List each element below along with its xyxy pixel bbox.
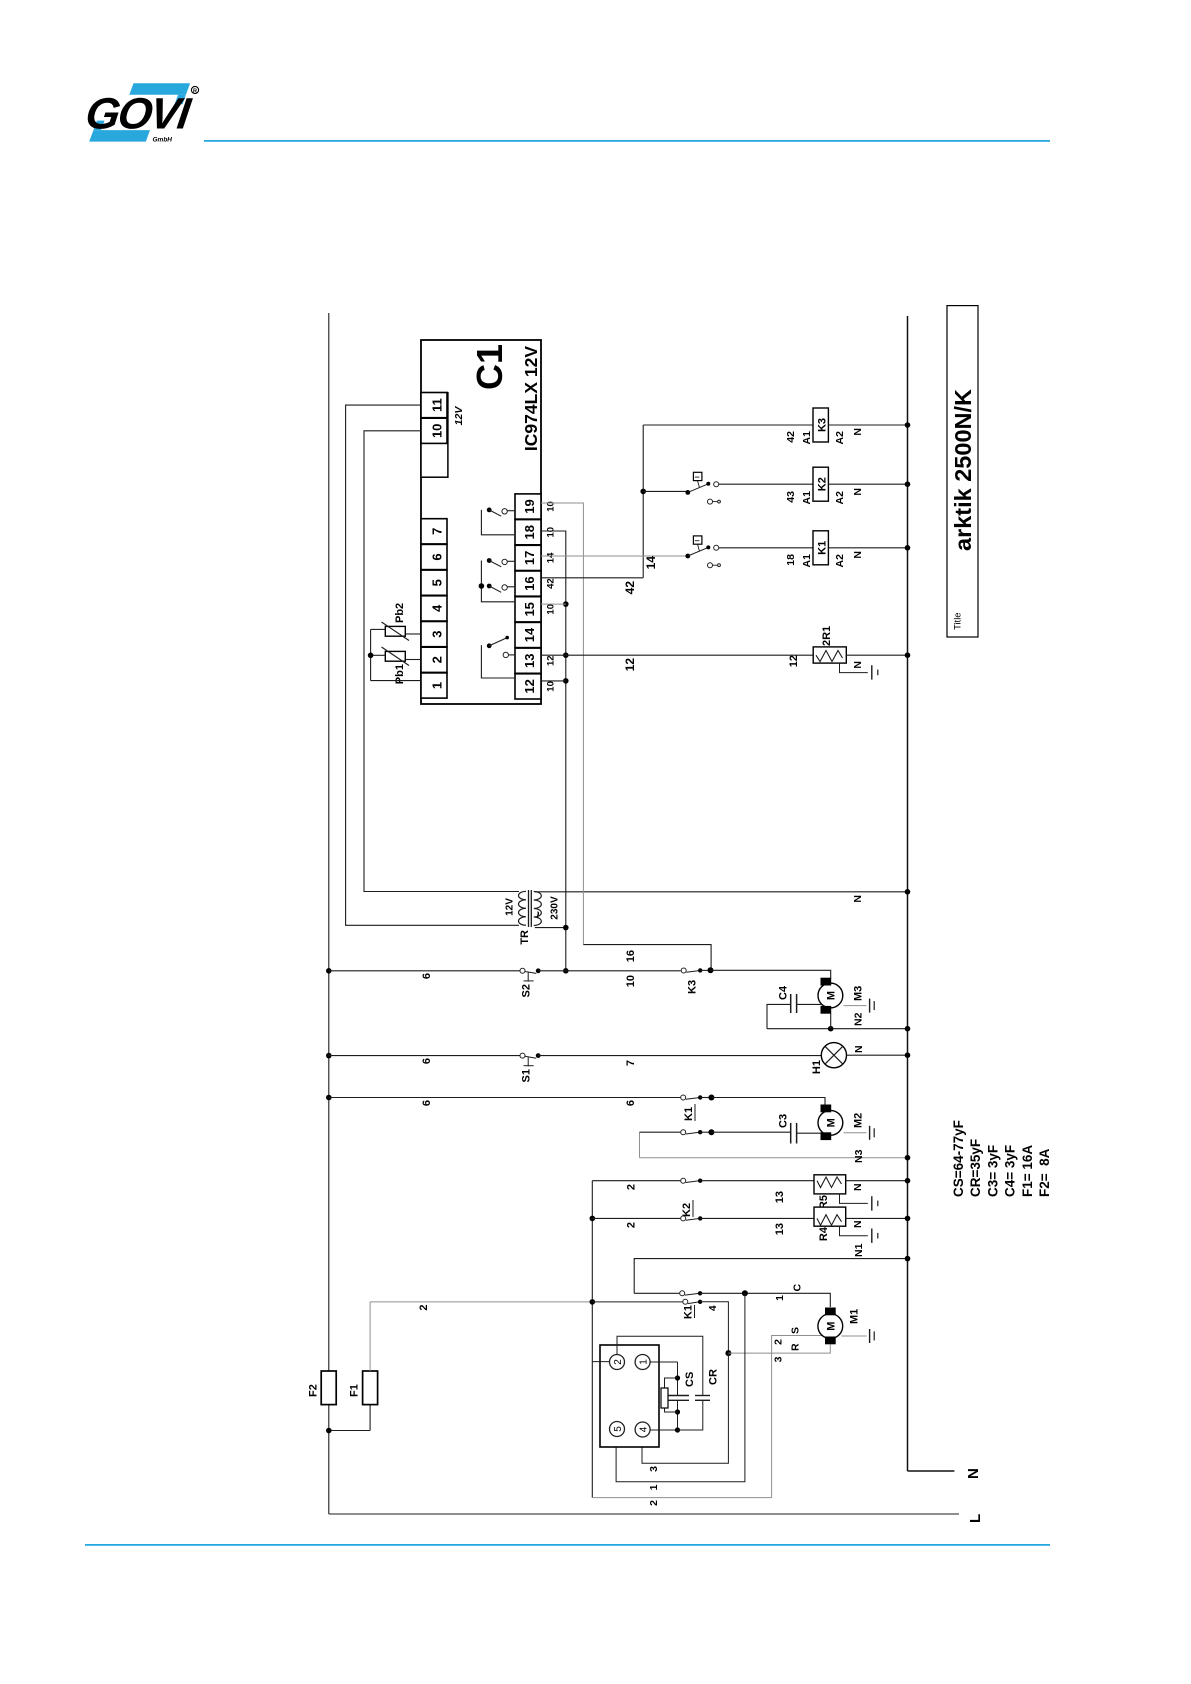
svg-text:S2: S2 xyxy=(521,984,533,997)
label N xyxy=(965,1468,982,1479)
pin 7 of C1 xyxy=(421,519,447,544)
svg-text:2: 2 xyxy=(773,1339,785,1345)
svg-text:M: M xyxy=(826,1322,838,1331)
svg-text:R: R xyxy=(790,1343,802,1351)
relay terminal 2 xyxy=(610,1355,625,1370)
wire K1 to fan M2 terminal xyxy=(711,1098,825,1106)
svg-text:A2: A2 xyxy=(834,431,846,445)
label L xyxy=(967,1514,984,1523)
svg-text:GmbH: GmbH xyxy=(153,136,173,143)
pin 10 of C1 xyxy=(421,418,447,443)
wire 14 from pin 17 xyxy=(541,556,686,570)
svg-text:6: 6 xyxy=(421,1058,433,1064)
svg-text:15: 15 xyxy=(522,602,537,616)
svg-text:M: M xyxy=(826,991,838,1000)
relay contact K1 lower xyxy=(640,1129,715,1135)
resistor R4 xyxy=(814,1207,846,1241)
wire 42 to relay coil K3 xyxy=(643,425,813,444)
svg-text:TR: TR xyxy=(519,930,531,945)
ground of M1 xyxy=(842,1329,875,1343)
wire changeover lower to R junction xyxy=(700,1302,731,1356)
wire pin 10 to TR 12V winding xyxy=(364,431,519,892)
transformer TR 230V winding xyxy=(531,892,546,926)
svg-text:10: 10 xyxy=(546,681,557,692)
svg-text:GOVI: GOVI xyxy=(83,90,196,139)
svg-text:10: 10 xyxy=(546,527,557,538)
relay terminal 4 xyxy=(635,1422,650,1437)
svg-text:H1: H1 xyxy=(811,1060,823,1074)
transformer TR core xyxy=(529,890,532,927)
wire probe common to pin 1 xyxy=(368,629,421,680)
resistor R5 xyxy=(814,1175,846,1209)
wire R4 to N rail xyxy=(846,1216,911,1228)
svg-text:N: N xyxy=(852,1220,864,1228)
svg-text:C4: C4 xyxy=(778,985,790,1000)
wire M3 to N rail xyxy=(767,1012,910,1031)
wire 13 to heater R4 xyxy=(700,1218,814,1235)
wire 7 S1 to lamp xyxy=(538,1056,821,1067)
svg-text:M: M xyxy=(826,1118,838,1127)
svg-text:F1= 16A: F1= 16A xyxy=(1020,1145,1035,1197)
svg-text:6: 6 xyxy=(625,1100,637,1106)
pressure switch of K2 xyxy=(685,472,720,504)
relay terminal 5 xyxy=(610,1422,625,1437)
relay coil K1 xyxy=(719,531,864,568)
ground of R1 xyxy=(840,663,878,680)
svg-text:16: 16 xyxy=(625,950,637,962)
svg-text:K3: K3 xyxy=(817,418,829,432)
wire 2 to M1 run terminal xyxy=(592,1327,824,1506)
svg-text:R4: R4 xyxy=(818,1226,830,1241)
svg-text:M2: M2 xyxy=(853,1113,865,1128)
svg-text:19: 19 xyxy=(522,499,537,513)
ground of R5 xyxy=(840,1194,878,1211)
component values note xyxy=(951,1120,1052,1197)
svg-text:N1: N1 xyxy=(853,1243,865,1257)
svg-text:CS=64-77yF: CS=64-77yF xyxy=(951,1120,966,1197)
svg-text:10: 10 xyxy=(546,604,557,615)
wire 6 branch S1 xyxy=(326,1053,520,1064)
svg-text:R: R xyxy=(193,88,197,94)
label TR xyxy=(519,930,531,945)
wire 42 branch to K2 xyxy=(643,490,686,492)
svg-text:K3: K3 xyxy=(687,980,699,994)
wire N1 branch xyxy=(634,1243,910,1293)
svg-text:7: 7 xyxy=(625,1060,637,1066)
wire terminal 2 stub to bus xyxy=(592,1361,609,1363)
svg-text:17: 17 xyxy=(522,551,537,565)
svg-text:6: 6 xyxy=(421,973,433,979)
svg-text:L: L xyxy=(967,1514,984,1523)
label 12V supply pins xyxy=(453,406,465,426)
label 230V winding xyxy=(550,896,561,920)
svg-text:Pb1: Pb1 xyxy=(394,664,406,684)
svg-text:1: 1 xyxy=(774,1295,786,1301)
transformer TR 12V winding xyxy=(519,891,526,925)
label IC974LX 12V xyxy=(521,346,541,451)
svg-text:C1: C1 xyxy=(469,344,510,390)
svg-text:F2: F2 xyxy=(308,1384,320,1397)
wire L rail left border segment xyxy=(329,1513,959,1515)
svg-text:2: 2 xyxy=(648,1500,660,1506)
wire F branch from L rail to F1 xyxy=(326,1405,370,1434)
switch S1 xyxy=(520,1053,541,1082)
wire 16 bus from pin 19 xyxy=(541,503,711,970)
svg-text:1: 1 xyxy=(639,1359,650,1365)
svg-text:5: 5 xyxy=(613,1426,624,1432)
fuse F1 xyxy=(349,1371,378,1405)
wire K3 coil to N rail xyxy=(828,422,910,428)
ground of M3 xyxy=(844,999,875,1013)
pin 17 of C1 xyxy=(515,545,541,570)
capacitor CR xyxy=(617,1336,720,1430)
pins 10 11 enclosure xyxy=(421,393,448,478)
wire 2 bus xyxy=(590,1181,596,1498)
relay contact K3 xyxy=(681,967,713,994)
svg-text:16: 16 xyxy=(522,576,537,590)
svg-text:18: 18 xyxy=(785,554,797,566)
svg-text:A2: A2 xyxy=(834,554,846,568)
wire C to compressor M1 xyxy=(700,1284,830,1308)
pin 18 of C1 xyxy=(515,520,541,545)
pin 2 of C1 xyxy=(421,647,447,672)
svg-text:M1: M1 xyxy=(849,1309,861,1324)
svg-text:K2: K2 xyxy=(681,1203,693,1217)
svg-text:N: N xyxy=(852,895,864,903)
label 12V winding xyxy=(505,898,516,916)
wire 6 branch K1 contact xyxy=(326,1095,680,1106)
thermistor probe Pb2 xyxy=(371,603,421,641)
wire R to M1 start terminal xyxy=(728,1343,830,1362)
svg-text:1: 1 xyxy=(648,1484,660,1490)
svg-text:5: 5 xyxy=(430,579,445,586)
svg-text:N: N xyxy=(852,551,864,559)
ground of M2 xyxy=(844,1126,875,1140)
svg-text:42: 42 xyxy=(623,581,637,595)
svg-text:4: 4 xyxy=(708,1305,719,1311)
internal contact C1 pins 18-19 xyxy=(481,508,515,535)
wire L supply rail (top border, portrait left line) xyxy=(328,313,330,1514)
pressure switch of K1 xyxy=(685,536,720,568)
internal contact C1 over pin 17 xyxy=(487,558,515,567)
wire H1 to N rail xyxy=(847,1045,911,1058)
GmbH text xyxy=(153,136,173,143)
pin 15 of C1 xyxy=(515,597,541,622)
pin 16 of C1 xyxy=(515,571,541,596)
svg-text:C: C xyxy=(792,1284,804,1292)
internal contact C1 pins 12-13-14 closed blade xyxy=(481,636,515,678)
svg-text:arktik 2500N/K: arktik 2500N/K xyxy=(950,389,976,551)
wire 42 from pin 16 xyxy=(541,578,643,595)
relay contact K2 lower xyxy=(592,1216,702,1228)
svg-text:3: 3 xyxy=(430,630,445,637)
svg-text:A1: A1 xyxy=(801,554,813,568)
svg-text:Pb2: Pb2 xyxy=(394,603,406,623)
switch S2 xyxy=(520,968,541,997)
svg-text:N: N xyxy=(852,1183,864,1191)
wire K2 coil to N rail xyxy=(828,481,910,487)
relay contact K1 upper xyxy=(681,1095,715,1122)
svg-text:2: 2 xyxy=(418,1305,430,1311)
svg-text:N: N xyxy=(852,428,864,436)
pin 14 of C1 xyxy=(515,622,541,647)
svg-text:3: 3 xyxy=(773,1356,785,1362)
svg-text:N: N xyxy=(853,1045,865,1053)
svg-text:A1: A1 xyxy=(801,491,813,505)
pin 1 of C1 xyxy=(421,673,447,698)
fuse F2 xyxy=(308,1371,337,1405)
GOVI logo wordmark xyxy=(83,90,196,139)
registered trademark symbol xyxy=(191,86,198,94)
wire pin 15 stub xyxy=(541,603,566,605)
svg-text:A1: A1 xyxy=(801,431,813,445)
relay coil K3 xyxy=(813,408,864,444)
svg-text:1: 1 xyxy=(430,682,445,689)
svg-text:C3: C3 xyxy=(778,1114,790,1128)
svg-text:N2: N2 xyxy=(853,1012,865,1026)
svg-text:13: 13 xyxy=(774,1223,786,1235)
wire 12 from pin 13 to R1 xyxy=(541,655,813,671)
svg-text:6: 6 xyxy=(430,553,445,560)
wire 42 bus to K3 and K2 xyxy=(640,425,646,578)
pin 13 of C1 xyxy=(515,648,541,673)
svg-text:CR: CR xyxy=(708,1369,720,1385)
wire K1 coil to N rail xyxy=(828,545,910,551)
svg-text:2: 2 xyxy=(626,1184,638,1190)
svg-text:14: 14 xyxy=(522,627,537,642)
header rule xyxy=(204,140,1050,142)
svg-text:Title: Title xyxy=(953,612,964,630)
resistor R1 xyxy=(813,626,846,663)
label C1 xyxy=(469,344,510,390)
svg-text:IC974LX 12V: IC974LX 12V xyxy=(521,346,541,451)
svg-text:11: 11 xyxy=(430,398,445,412)
relay coil K2 xyxy=(719,467,864,504)
wire 6 branch S2 xyxy=(326,968,520,979)
svg-text:12: 12 xyxy=(546,655,557,666)
wire TR 230V left end to bus xyxy=(535,927,566,929)
relay contact K1 changeover upper xyxy=(634,1291,702,1319)
svg-text:4: 4 xyxy=(430,604,445,612)
capacitor C3 xyxy=(711,1114,821,1144)
svg-text:12: 12 xyxy=(623,658,637,672)
svg-text:A2: A2 xyxy=(834,491,846,505)
wire N rail xyxy=(908,316,955,1471)
svg-text:C4= 3yF: C4= 3yF xyxy=(1003,1145,1018,1197)
relay contact K2 upper xyxy=(592,1178,702,1217)
svg-text:2: 2 xyxy=(613,1359,624,1365)
wire 10 bus from pin 18 xyxy=(541,531,569,974)
GOVI logo cyan bottom bar xyxy=(89,121,150,142)
wire 1 to relay terminal 5 xyxy=(616,1293,745,1490)
svg-text:230V: 230V xyxy=(550,896,561,920)
start relay box of M1 xyxy=(600,1345,659,1447)
GOVI logo cyan top bar xyxy=(129,83,190,104)
svg-text:3: 3 xyxy=(648,1466,660,1472)
pin 5 of C1 xyxy=(421,570,447,595)
schematic rotated group xyxy=(308,306,1053,1523)
svg-text:N: N xyxy=(965,1468,982,1479)
wire terminal 1 to CS xyxy=(650,1361,677,1363)
wire TR 230V right end to N rail xyxy=(535,889,911,903)
wire K3 contact to fan M3 xyxy=(711,970,831,978)
internal contact C1 over pin 16 xyxy=(487,584,515,593)
svg-text:K2: K2 xyxy=(817,477,829,491)
wire 13 to heater R5 xyxy=(700,1181,814,1204)
svg-text:N: N xyxy=(852,661,864,669)
capacitor C4 xyxy=(767,985,821,1029)
svg-text:S1: S1 xyxy=(521,1069,533,1082)
svg-text:N3: N3 xyxy=(853,1149,865,1163)
svg-text:12: 12 xyxy=(522,679,537,693)
svg-text:10: 10 xyxy=(625,975,637,987)
pin wire number labels under C1 pins xyxy=(546,501,557,691)
wire terminal 4 to CS CR node xyxy=(650,1429,677,1431)
lamp H1 xyxy=(811,1043,847,1074)
wire R1 to N rail xyxy=(846,652,910,668)
svg-text:K1: K1 xyxy=(817,541,829,555)
capacitor CS with bleed resistor xyxy=(661,1362,696,1433)
relay contact K1 changeover lower xyxy=(592,1299,719,1311)
svg-text:2R1: 2R1 xyxy=(821,626,833,646)
relay terminal 1 xyxy=(635,1355,650,1370)
svg-text:42: 42 xyxy=(546,578,557,589)
svg-text:18: 18 xyxy=(522,525,537,539)
svg-text:CR=35yF: CR=35yF xyxy=(968,1139,983,1197)
wire pin 12 stub xyxy=(541,680,566,682)
svg-text:13: 13 xyxy=(774,1191,786,1203)
svg-text:10: 10 xyxy=(430,424,445,438)
motor M3 xyxy=(818,978,865,1013)
svg-text:K1: K1 xyxy=(683,1107,695,1121)
svg-text:2: 2 xyxy=(626,1222,638,1228)
svg-text:F2= 8A: F2= 8A xyxy=(1037,1148,1052,1197)
svg-text:12V: 12V xyxy=(505,898,516,916)
svg-text:K1: K1 xyxy=(683,1305,695,1319)
svg-text:F1: F1 xyxy=(349,1384,361,1397)
svg-text:N: N xyxy=(852,488,864,496)
internal contact common pins 15-16-17 xyxy=(479,561,516,602)
footer rule xyxy=(85,1544,1050,1546)
motor M2 xyxy=(818,1105,865,1140)
pin 19 of C1 xyxy=(515,494,541,519)
pin 6 of C1 xyxy=(421,544,447,569)
svg-text:43: 43 xyxy=(785,491,797,503)
controller C1 box xyxy=(421,340,541,704)
wire pin 11 to TR 12V winding xyxy=(346,405,519,925)
svg-text:2: 2 xyxy=(430,656,445,663)
svg-text:12V: 12V xyxy=(453,406,465,426)
title block arktik 2500N/K xyxy=(947,306,978,637)
motor M1 compressor xyxy=(818,1308,861,1344)
svg-text:S: S xyxy=(790,1327,802,1334)
pin 3 of C1 xyxy=(421,622,447,647)
svg-text:42: 42 xyxy=(785,431,797,443)
svg-text:14: 14 xyxy=(546,552,557,563)
wire S2 to K3 contact xyxy=(538,971,681,987)
wire R5 to N rail xyxy=(846,1178,911,1191)
pin 4 of C1 xyxy=(421,596,447,621)
wire 3 to relay terminal 4 xyxy=(642,1353,728,1472)
pin 12 of C1 xyxy=(515,674,541,699)
pin 11 of C1 xyxy=(421,393,447,418)
svg-text:14: 14 xyxy=(644,556,658,570)
thermistor probe Pb1 xyxy=(371,647,421,684)
ground of R4 xyxy=(840,1226,878,1243)
svg-text:4: 4 xyxy=(639,1426,650,1432)
svg-text:13: 13 xyxy=(522,653,537,667)
svg-text:6: 6 xyxy=(421,1100,433,1106)
svg-text:C3= 3yF: C3= 3yF xyxy=(985,1145,1000,1197)
svg-text:CS: CS xyxy=(684,1372,696,1387)
wire 2 feed from F1 to changeover xyxy=(370,1302,592,1371)
svg-text:M3: M3 xyxy=(853,986,865,1001)
svg-text:12: 12 xyxy=(788,655,800,667)
svg-text:~: ~ xyxy=(531,911,546,919)
svg-text:7: 7 xyxy=(430,528,445,535)
wire N3 to K1 lower contact xyxy=(640,1132,911,1163)
